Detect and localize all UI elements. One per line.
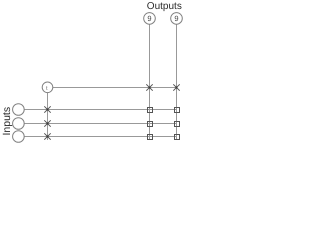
svg-text:Outputs: Outputs xyxy=(147,1,182,12)
svg-text:9: 9 xyxy=(147,14,151,23)
svg-text:Inputs: Inputs xyxy=(1,107,13,136)
svg-text:9: 9 xyxy=(174,14,178,23)
